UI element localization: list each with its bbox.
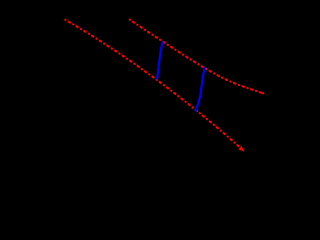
blue arrow 1 <box>157 41 163 79</box>
red arrowhead at end of lower line <box>238 146 244 152</box>
blue arrow 2 <box>196 67 205 112</box>
upper adiabatic red dotted curve <box>130 20 264 94</box>
lower diabatic red dotted line <box>65 20 238 146</box>
